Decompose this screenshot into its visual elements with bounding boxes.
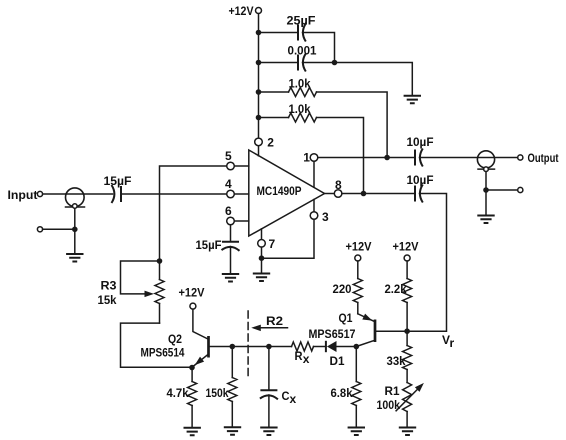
svg-text:100k: 100k: [377, 398, 401, 412]
svg-text:8: 8: [335, 178, 342, 192]
svg-text:Q1: Q1: [339, 311, 353, 325]
transistor Q2 MPS6514: [141, 309, 209, 367]
op-amp U1 MC1490P: [249, 150, 325, 236]
capacitor C 0.001: [259, 44, 413, 96]
svg-text:1: 1: [303, 151, 310, 165]
svg-text:33k: 33k: [387, 354, 406, 368]
input terminal: [8, 188, 43, 202]
wire pin 1 line: [318, 157, 414, 159]
svg-text:0.001: 0.001: [288, 44, 317, 58]
svg-text:+12V: +12V: [346, 240, 372, 254]
node output shield: [483, 187, 489, 193]
resistor Rx: [292, 342, 314, 366]
ground (output): [477, 216, 494, 224]
node D1/Q1/6.8k: [354, 344, 360, 350]
node feedback/pin-1 line: [384, 155, 390, 161]
wire input shield: [43, 208, 75, 253]
pin 8: [325, 178, 343, 197]
resistor 1.0k (to pin 8): [259, 102, 364, 191]
svg-text:4: 4: [225, 177, 232, 191]
supply +12V (2.2k): [393, 240, 419, 262]
wire pin 5 to bias node: [160, 166, 227, 259]
node rail/0.001: [256, 60, 262, 66]
svg-text:3: 3: [322, 210, 329, 224]
shield partition (dashed): [247, 311, 249, 378]
svg-text:7: 7: [269, 237, 276, 251]
capacitor 15uF (input coupling): [104, 174, 227, 203]
capacitor C 25uF: [259, 14, 335, 61]
capacitor 10uF (pin 1): [407, 135, 518, 167]
svg-text:+12V: +12V: [229, 4, 254, 18]
output shield terminal: [518, 187, 523, 192]
node rail/1.0k-A: [256, 89, 262, 95]
svg-text:+12V: +12V: [179, 286, 205, 300]
wire Rx to D1: [314, 346, 326, 348]
ground (Cx): [260, 428, 277, 436]
svg-text:R1: R1: [385, 384, 400, 398]
svg-text:6.8k: 6.8k: [331, 386, 353, 400]
wire Q1 base: [375, 330, 405, 332]
svg-text:MPS6514: MPS6514: [141, 346, 185, 360]
wire input to coupling cap: [43, 193, 113, 195]
resistor 33k: [387, 331, 412, 382]
node Vr/divider: [404, 328, 410, 334]
transistor Q1 MPS6517: [309, 311, 376, 347]
wire +12V rail: [258, 14, 260, 139]
svg-text:10µF: 10µF: [407, 173, 434, 187]
ground (4.7k): [184, 428, 201, 436]
svg-text:R3: R3: [101, 279, 117, 293]
svg-text:10µF: 10µF: [407, 135, 434, 149]
svg-text:R2: R2: [266, 314, 283, 328]
node Cx tap: [266, 344, 272, 350]
node input shield: [72, 227, 78, 233]
supply +12V (Q2): [179, 286, 205, 310]
wire output shield: [486, 172, 518, 216]
resistor 4.7k: [167, 368, 197, 428]
wire R3 bottom to Q2 emitter: [121, 323, 190, 367]
pin 7: [258, 229, 276, 251]
ground (R1): [399, 428, 416, 436]
output jack connector: [477, 151, 494, 172]
svg-text:r: r: [450, 336, 455, 350]
wire pin 7 to pin 3: [262, 219, 315, 273]
supply +12V (220): [346, 240, 372, 262]
ground (6.8k): [348, 428, 365, 436]
wire pin 8 line: [342, 193, 414, 195]
label Vr: [442, 333, 455, 350]
pin 6: [225, 204, 249, 225]
node bias/R3 top: [157, 258, 163, 264]
svg-text:2.2k: 2.2k: [385, 282, 407, 296]
svg-text:15µF: 15µF: [196, 238, 222, 252]
resistor 6.8k: [331, 347, 361, 428]
pin 4: [225, 177, 249, 198]
ground (input): [66, 254, 83, 262]
svg-text:+12V: +12V: [393, 240, 419, 254]
svg-text:R: R: [295, 349, 303, 363]
label R2 with arrow: [251, 314, 287, 331]
svg-text:15µF: 15µF: [104, 174, 132, 188]
node rail/25uF: [256, 30, 262, 36]
svg-text:Q2: Q2: [168, 332, 182, 346]
svg-text:x: x: [303, 352, 310, 366]
svg-text:6: 6: [225, 204, 232, 218]
diode D1: [326, 341, 354, 368]
svg-text:15k: 15k: [98, 293, 117, 307]
input shield terminal: [37, 227, 42, 232]
resistor 1.0k (to pin 1): [259, 77, 388, 156]
svg-text:1.0k: 1.0k: [289, 102, 311, 116]
node rail/1.0k-B: [256, 115, 262, 121]
potentiometer R3 15k: [98, 261, 165, 323]
svg-text:150k: 150k: [206, 386, 229, 400]
svg-text:5: 5: [225, 149, 232, 163]
resistor 2.2k: [385, 261, 412, 329]
svg-text:MC1490P: MC1490P: [257, 184, 302, 198]
svg-text:2: 2: [267, 135, 274, 149]
svg-text:x: x: [290, 392, 297, 406]
svg-text:MPS6517: MPS6517: [309, 327, 356, 341]
node 150k tap: [230, 344, 236, 350]
ground (0.001 bypass): [404, 96, 421, 104]
node feedback/pin-8 line: [361, 191, 367, 197]
svg-text:4.7k: 4.7k: [167, 386, 189, 400]
svg-text:D1: D1: [330, 354, 345, 368]
svg-text:Input: Input: [8, 188, 38, 202]
svg-text:220: 220: [333, 282, 352, 296]
svg-text:1.0k: 1.0k: [289, 77, 311, 91]
ground (pin 6 bypass): [222, 274, 239, 282]
resistor 150k: [206, 347, 237, 428]
supply +12V terminal (top): [229, 4, 262, 18]
node pin 7 ground: [259, 255, 265, 261]
svg-text:Output: Output: [528, 151, 559, 165]
svg-text:25µF: 25µF: [287, 14, 316, 28]
rheostat R1 100k: [377, 383, 424, 428]
pin 2: [255, 135, 275, 156]
capacitor 15uF (pin 6 bypass): [196, 225, 240, 274]
input jack connector: [66, 188, 85, 208]
capacitor Cx: [260, 347, 297, 428]
resistor 220: [333, 261, 363, 314]
capacitor 10uF (pin 8 / Vr): [407, 173, 447, 331]
pin 5: [225, 149, 249, 170]
pin 1: [303, 151, 318, 188]
node Q2 emitter: [189, 365, 195, 371]
output terminal: [518, 151, 559, 165]
node 25uF/0.001 junction: [332, 60, 338, 66]
ground (pin 7): [253, 274, 270, 282]
pin 3: [310, 200, 329, 225]
wire Q2 base: [209, 346, 292, 348]
ground (150k): [224, 427, 241, 435]
